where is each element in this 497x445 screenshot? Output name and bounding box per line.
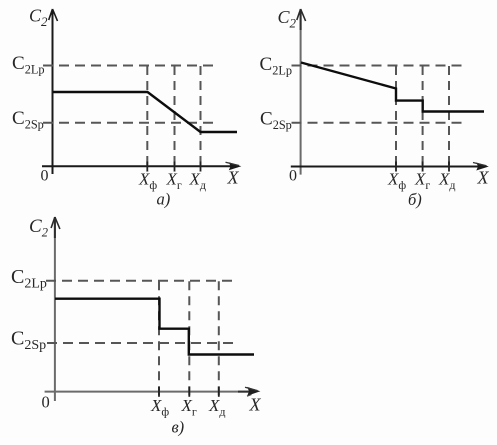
svg-text:0: 0: [41, 168, 49, 185]
svg-text:X: X: [477, 168, 490, 188]
svg-text:0: 0: [42, 393, 50, 412]
svg-text:а): а): [157, 190, 171, 209]
svg-text:б): б): [408, 190, 422, 209]
svg-text:в): в): [172, 418, 185, 437]
svg-text:X: X: [249, 395, 262, 415]
svg-text:0: 0: [289, 168, 297, 185]
svg-text:X: X: [227, 168, 240, 188]
